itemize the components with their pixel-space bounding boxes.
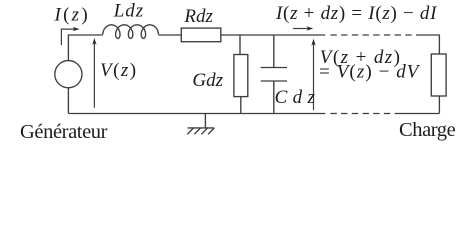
wire resistor to dashes bbox=[221, 34, 325, 36]
svg-text:V(z): V(z) bbox=[100, 60, 137, 81]
svg-text:Cdz: Cdz bbox=[275, 87, 321, 108]
svg-text:I(z + dz) = I(z) − dI: I(z + dz) = I(z) − dI bbox=[275, 3, 438, 24]
resistor Rdz bbox=[181, 28, 221, 42]
wire top-right corner bbox=[417, 35, 440, 54]
wire top dashed bbox=[330, 34, 417, 36]
wire below load bbox=[438, 96, 440, 114]
svg-text:Rdz: Rdz bbox=[183, 6, 213, 27]
ground stem bbox=[204, 114, 206, 128]
svg-text:I(z): I(z) bbox=[54, 4, 90, 25]
generator source circle bbox=[55, 61, 82, 88]
wire generator bottom bbox=[67, 88, 69, 114]
wire capacitor top bbox=[273, 35, 275, 68]
svg-text:Charge: Charge bbox=[399, 119, 456, 141]
wire bottom-right bbox=[397, 113, 439, 115]
current arrow I(z+dz) bbox=[293, 28, 309, 30]
voltage arrow V(z) bbox=[93, 43, 95, 108]
wire coil to resistor bbox=[158, 34, 181, 36]
wire capacitor bottom bbox=[273, 81, 275, 114]
conductance Gdz box bbox=[234, 55, 248, 97]
wire bottom solid bbox=[68, 113, 325, 115]
svg-text:Gdz: Gdz bbox=[192, 70, 223, 91]
wire Gdz branch bottom bbox=[240, 97, 242, 114]
ground symbol bbox=[187, 128, 214, 134]
wire top-left corner bbox=[68, 35, 102, 61]
current arrow I(z) bbox=[61, 29, 76, 45]
wire bottom dashed bbox=[330, 113, 397, 115]
voltage arrow V(z+dz) bbox=[313, 43, 315, 110]
capacitor Cdz plates bbox=[261, 68, 287, 82]
wire Gdz branch top bbox=[239, 35, 241, 55]
svg-text:= V(z) − dV: = V(z) − dV bbox=[319, 62, 421, 83]
load box (Charge) bbox=[431, 54, 446, 96]
inductor Ldz bbox=[103, 25, 159, 39]
svg-text:Ldz: Ldz bbox=[113, 1, 144, 22]
svg-text:Générateur: Générateur bbox=[20, 121, 108, 141]
